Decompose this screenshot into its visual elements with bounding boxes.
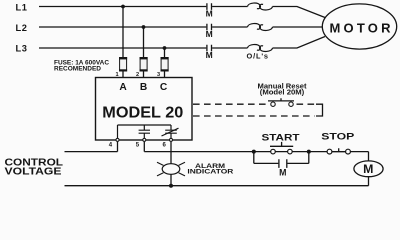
- svg-text:L1: L1: [16, 2, 28, 12]
- svg-text:(Model 20M): (Model 20M): [260, 90, 305, 97]
- svg-text:M: M: [206, 29, 213, 39]
- svg-text:O/L's: O/L's: [247, 52, 269, 61]
- svg-text:VOLTAGE: VOLTAGE: [5, 167, 63, 178]
- svg-text:3: 3: [157, 72, 160, 78]
- svg-text:L3: L3: [16, 44, 28, 54]
- svg-text:MODEL 20: MODEL 20: [102, 104, 183, 121]
- svg-text:2: 2: [136, 72, 139, 78]
- svg-text:1: 1: [115, 72, 118, 78]
- svg-text:B: B: [140, 82, 147, 93]
- svg-text:RECOMENDED: RECOMENDED: [54, 66, 101, 73]
- svg-text:L2: L2: [16, 23, 28, 33]
- svg-text:MOTOR: MOTOR: [330, 20, 392, 35]
- svg-text:M: M: [206, 8, 213, 18]
- svg-text:STOP: STOP: [321, 132, 355, 143]
- svg-text:A: A: [119, 82, 127, 93]
- svg-text:M: M: [279, 168, 286, 178]
- svg-text:C: C: [160, 82, 168, 93]
- svg-text:M: M: [206, 50, 213, 60]
- svg-text:START: START: [262, 133, 300, 144]
- svg-text:M: M: [363, 162, 373, 176]
- svg-text:INDICATOR: INDICATOR: [187, 169, 233, 176]
